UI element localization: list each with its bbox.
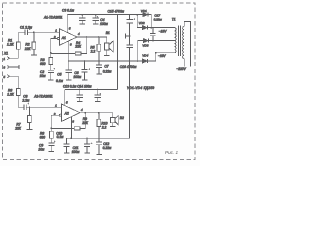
- node: AC2: [155, 52, 157, 54]
- svg-text:C1 2.2м: C1 2.2м: [20, 25, 33, 29]
- node: C8/R7 junction: [29, 106, 31, 108]
- capacitor C6: [73, 61, 90, 80]
- svg-text:VD1-VD4 КД259: VD1-VD4 КД259: [127, 86, 154, 90]
- svg-text:2.2м: 2.2м: [21, 99, 30, 103]
- diode VD4: [142, 53, 156, 63]
- node: ch2 +V rail: [117, 14, 119, 16]
- ground (C5): [66, 79, 72, 81]
- svg-text:2.2: 2.2: [101, 125, 107, 129]
- diode VD1: [141, 9, 148, 16]
- wire: -V bus channel 1: [69, 60, 143, 62]
- svg-text:T1: T1: [172, 18, 176, 22]
- wire: A2 pin3 down: [70, 117, 72, 138]
- node: C15 chain on +V: [129, 14, 131, 16]
- svg-text:1.2К: 1.2К: [7, 43, 15, 47]
- wire: A1 output: [77, 36, 107, 38]
- svg-text:10м: 10м: [40, 74, 47, 78]
- svg-text:~16V: ~16V: [159, 30, 167, 34]
- ground (R2): [31, 54, 37, 56]
- ground (C6): [82, 79, 88, 81]
- transformer T1: [172, 18, 191, 67]
- svg-text:100м: 100м: [73, 75, 82, 79]
- node: C17 / center-tap wire: [152, 40, 154, 42]
- svg-text:4: 4: [81, 108, 83, 112]
- ground (C7): [96, 73, 102, 75]
- wire: +V rail to channel 2: [116, 15, 118, 90]
- svg-text:Рис. 1: Рис. 1: [165, 150, 178, 155]
- capacitor C16: [120, 45, 137, 69]
- svg-text:C13 0.1м C14 100м: C13 0.1м C14 100м: [63, 84, 92, 88]
- ground (C14): [95, 101, 101, 103]
- svg-text:1: 1: [3, 57, 5, 61]
- wire: +V top bus: [67, 14, 143, 16]
- node: VD2 stub on +V: [136, 14, 138, 16]
- capacitor C14: [95, 90, 102, 102]
- resistor R4 (feedback): [51, 37, 87, 55]
- capacitor C5: [56, 61, 72, 83]
- resistor R2: [24, 32, 36, 55]
- node: A2 pin3 on ch2 -V bus: [71, 137, 73, 139]
- svg-text:A1-TDA2051: A1-TDA2051: [43, 15, 63, 19]
- svg-text:VD4: VD4: [142, 53, 148, 57]
- node: fb2/R8 junction: [50, 128, 52, 130]
- diode VD2: [137, 15, 174, 30]
- svg-text:~16V: ~16V: [158, 54, 166, 58]
- capacitor C10: [56, 132, 69, 154]
- svg-text:22К: 22К: [24, 47, 32, 51]
- resistor R8: [40, 128, 54, 143]
- svg-text:10м: 10м: [38, 148, 45, 152]
- svg-text:A1: A1: [61, 36, 66, 40]
- svg-text:5: 5: [66, 101, 68, 105]
- node: C3 on +V: [81, 14, 83, 16]
- resistor R3: [40, 53, 53, 70]
- resistor R1: [7, 32, 20, 49]
- node: C16 on -V bus: [129, 60, 131, 62]
- capacitor C12: [96, 142, 112, 155]
- wire: A2 pin5 to ch2 +V bus: [64, 90, 66, 106]
- svg-text:22К: 22К: [14, 126, 22, 130]
- capacitor C8: [21, 95, 61, 110]
- svg-text:C15 4700м: C15 4700м: [108, 9, 125, 13]
- wire: A2 output: [80, 112, 113, 114]
- capacitor C4: [93, 15, 109, 26]
- node: output/R5: [98, 36, 100, 38]
- svg-text:1: 1: [55, 29, 57, 33]
- capacitor C15: [108, 9, 136, 44]
- node: output/R10: [98, 112, 100, 114]
- svg-text:5: 5: [69, 27, 71, 31]
- wire: ch2 -V bus and riser to PSU: [67, 61, 130, 138]
- svg-text:5: 5: [3, 75, 5, 79]
- label A1 type: [43, 15, 63, 19]
- svg-text:A2-TDA2051: A2-TDA2051: [33, 95, 53, 99]
- capacitor C13: [77, 90, 83, 102]
- capacitor C11: [72, 138, 93, 154]
- svg-text:4: 4: [78, 32, 80, 36]
- speaker B2: [111, 113, 124, 127]
- node: C13 on ch2 +V: [79, 89, 81, 91]
- svg-text:C5: C5: [57, 72, 61, 76]
- wire: A2 inverting input: [51, 115, 59, 128]
- label A2 type: [33, 95, 53, 99]
- ground (C9): [49, 150, 55, 152]
- connector X1 label: [3, 52, 8, 56]
- ground (B1): [104, 54, 110, 56]
- node: output/feedback: [86, 36, 88, 38]
- svg-text:X1: X1: [3, 52, 8, 56]
- svg-text:1.2К: 1.2К: [7, 92, 15, 96]
- border frame (dashed): [3, 3, 196, 160]
- ground (C12): [96, 154, 102, 156]
- capacitor C7: [96, 65, 112, 74]
- svg-text:В1: В1: [106, 31, 110, 35]
- connector X1 pin 1: [3, 49, 18, 61]
- svg-text:3: 3: [70, 42, 72, 46]
- diode VD3: [138, 39, 175, 61]
- svg-text:A2: A2: [64, 111, 69, 115]
- wire: A1 inverting input: [51, 38, 57, 52]
- resistor R6: [7, 88, 23, 107]
- ground (C4): [93, 23, 99, 25]
- label C13 C14: [63, 84, 92, 88]
- node: C6 on -V bus: [84, 60, 86, 62]
- svg-text:C16 4700м: C16 4700м: [120, 65, 137, 69]
- wire: A1 pin5 to +V bus: [66, 15, 68, 33]
- svg-text:0.22м: 0.22м: [103, 146, 112, 150]
- node: AC1: [150, 27, 152, 29]
- svg-text:100м: 100м: [100, 22, 109, 26]
- wire: AC2 to transformer: [156, 52, 175, 54]
- ground (C2): [48, 79, 54, 81]
- ground (B2): [110, 125, 116, 127]
- svg-text:1: 1: [55, 103, 57, 107]
- wire: A1 pin3 down: [68, 41, 70, 61]
- svg-text:0.22м: 0.22м: [103, 70, 112, 74]
- ground (C13): [77, 101, 83, 103]
- ground (midpoint, sideways): [126, 33, 130, 38]
- node: output/feedback 2: [84, 112, 86, 114]
- node: pin3/C5: [68, 60, 70, 62]
- op-amp A1: [53, 27, 80, 47]
- label ~16V bottom: [158, 54, 166, 58]
- svg-text:0.22м: 0.22м: [154, 17, 163, 21]
- node: fb/R3 junction: [50, 52, 52, 54]
- resistor R5: [90, 37, 101, 65]
- label VD1-VD4 type: [127, 86, 154, 90]
- node: VD3 stub on -V bus: [137, 60, 139, 62]
- caption: [165, 150, 178, 155]
- label ~220V: [176, 67, 186, 71]
- svg-text:VD2: VD2: [139, 21, 145, 25]
- svg-text:VD3: VD3: [142, 43, 148, 47]
- capacitor C17: [150, 14, 162, 41]
- speaker B1: [105, 31, 114, 55]
- svg-text:680: 680: [40, 135, 46, 139]
- svg-text:0.1м: 0.1м: [56, 79, 64, 83]
- ground (R7): [27, 128, 33, 130]
- capacitor C2: [40, 68, 55, 80]
- capacitor C3: [62, 8, 85, 24]
- svg-text:C7: C7: [104, 65, 108, 69]
- svg-text:~220V: ~220V: [176, 67, 186, 71]
- svg-text:680: 680: [40, 62, 46, 66]
- node: C14 on ch2 +V: [97, 89, 99, 91]
- node: C11 on ch2 -V bus: [86, 137, 88, 139]
- node: C4 on +V: [95, 14, 97, 16]
- connector X1 pin 3: [3, 65, 19, 70]
- op-amp A2: [53, 101, 83, 124]
- svg-text:C3 0.1м: C3 0.1м: [62, 8, 75, 12]
- svg-text:2.2: 2.2: [90, 50, 96, 54]
- svg-text:В2: В2: [120, 116, 124, 120]
- resistor R7: [14, 107, 31, 130]
- wire: ch2 +V bus: [65, 89, 118, 91]
- node: C15/C16 midpoint: [129, 35, 131, 37]
- ground (C10): [64, 152, 70, 154]
- connector X1 pin 5: [3, 75, 18, 89]
- svg-text:100м: 100м: [72, 150, 81, 154]
- label ~16V top: [159, 30, 167, 34]
- svg-text:0.1м: 0.1м: [57, 135, 65, 139]
- capacitor C9: [38, 141, 55, 152]
- svg-text:VD1: VD1: [141, 9, 147, 13]
- resistor R9 (feedback): [51, 113, 89, 130]
- ground (C3): [80, 23, 86, 25]
- svg-text:3: 3: [3, 66, 5, 70]
- ground (C11): [84, 152, 90, 154]
- capacitor C1: [18, 25, 59, 35]
- svg-text:3: 3: [72, 120, 74, 124]
- svg-text:22К: 22К: [74, 45, 82, 49]
- node: C1/R2 junction: [33, 31, 35, 33]
- resistor R10: [97, 113, 108, 142]
